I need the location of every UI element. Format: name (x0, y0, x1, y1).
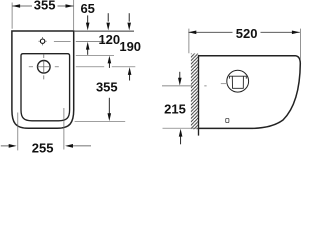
top edge extension line to right (75, 30, 134, 32)
bidet side profile outline (198, 56, 300, 129)
drain centerline dashes (29, 54, 59, 80)
dim 355 right arrowhead (66, 4, 74, 8)
dim 520 line right segment (261, 31, 300, 33)
dim 520: right extension line (299, 29, 301, 61)
drain hole circle (38, 61, 51, 74)
dim 355 left arrowhead (12, 4, 20, 8)
faucet hole crosshair ticks (38, 37, 46, 45)
faucet hole circle (40, 39, 44, 43)
svg-text:120: 120 (98, 32, 120, 47)
svg-text:255: 255 (32, 140, 54, 154)
inner basin outline (21, 54, 70, 121)
dim 355 line left segment (12, 5, 32, 7)
svg-text:355: 355 (34, 0, 56, 13)
basin top reference line (76, 54, 114, 56)
bottom corner reference line (75, 120, 126, 122)
dim 355 vertical down arrow (108, 98, 110, 115)
bidet outer body outline (12, 31, 74, 128)
wall line (198, 55, 200, 136)
dim 215 bottom arrow (up) (179, 129, 183, 137)
dim 520 right arrowhead (292, 30, 300, 34)
dim 215 top arrow (down) (179, 72, 181, 78)
centerline dash left of circle (221, 83, 226, 85)
inlet centerline inside bidet (204, 85, 206, 87)
cup icon inside circle (229, 76, 247, 88)
wall hatching (191, 54, 198, 130)
svg-text:215: 215 (164, 102, 186, 117)
dim 520: left extension line (188, 29, 190, 54)
small drain outlet on bottom (226, 118, 229, 122)
dim 255 right extension line (63, 108, 65, 150)
bottom level reference line (163, 127, 199, 129)
dim 520 line left segment (188, 31, 232, 33)
dim 255 right arrow (outside) (65, 144, 73, 148)
side circle (trap/drain fitting) (227, 70, 249, 92)
faucet centerline dash to right (54, 40, 71, 42)
dim 355 horizontal: left extension line (11, 3, 13, 29)
svg-text:190: 190 (119, 39, 141, 54)
svg-text:355: 355 (96, 79, 118, 94)
faucet level reference line (76, 41, 104, 43)
dim 520 left arrowhead (188, 30, 196, 34)
dim 255 left arrow (outside) (1, 145, 10, 147)
dim 120 up arrow (108, 56, 112, 64)
dim 120 down arrow (107, 13, 109, 21)
dim 65 up arrow (86, 42, 90, 50)
dim 355 horizontal: right extension line (73, 0, 75, 30)
drain level reference line (76, 66, 104, 68)
dim 355 line right segment (58, 5, 74, 7)
dim 65 down arrow (87, 15, 89, 23)
dim 190 down arrow (128, 13, 130, 21)
svg-text:520: 520 (236, 26, 258, 41)
inlet level reference line (162, 85, 192, 87)
dim 190 up arrow (128, 67, 132, 75)
dim 255 left extension line (17, 113, 19, 151)
svg-text:65: 65 (80, 1, 94, 16)
drain crosshair centerlines (37, 60, 51, 73)
